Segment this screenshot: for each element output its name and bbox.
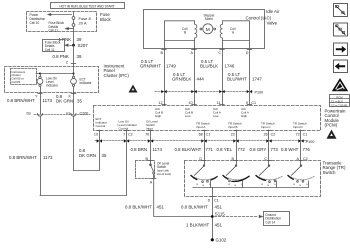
ESD warning triangle under PCM label (327, 130, 337, 139)
pin 70 of PCM (145, 131, 153, 137)
wire label 0.5 LT GRN/WHT 1749 (140, 59, 176, 69)
svg-text:GRN/WHT: GRN/WHT (140, 64, 161, 69)
svg-text:0.8 BLK/WHT: 0.8 BLK/WHT (181, 204, 208, 209)
svg-text:773: 773 (271, 147, 279, 152)
label Fuse 8 20 A (79, 16, 92, 26)
label Fuse Block (100, 12, 112, 22)
svg-text:20 A: 20 A (79, 20, 87, 25)
svg-text:Valve: Valve (267, 20, 278, 25)
terminal C of TR switch (264, 157, 271, 161)
wire label 1 PNK 39 (59, 37, 82, 42)
svg-text:23: 23 (231, 132, 235, 136)
wire S207 to IPC terminal Z (73, 45, 75, 66)
svg-text:C2: C2 (271, 132, 276, 136)
svg-text:D: D (246, 51, 249, 55)
svg-text:Input A: Input A (196, 125, 205, 129)
transaxle range TR switch dashed box (185, 161, 321, 197)
label Low Oil Level Indicator Control (118, 119, 138, 130)
wire K to C200 (73, 93, 75, 115)
pin 7 C2 of PCM (123, 131, 133, 137)
label TR Switch Input C (261, 122, 275, 130)
coil B winding (165, 21, 197, 49)
wire label 0.8 BLK/WHT 451 (switch side) (125, 204, 164, 209)
wire oil level switch A to S115 (154, 179, 211, 217)
stepper motor symbol U1 (200, 24, 216, 34)
wire TR common to box edge (212, 188, 214, 197)
splice S207 (72, 43, 88, 48)
wire label 0.5 LT BLU/BLK 1746 (200, 59, 235, 69)
icon box arrow forward (334, 43, 348, 56)
cell reference Power Distribution Cell 10 (30, 13, 46, 25)
pin 12 of PCM (158, 101, 166, 105)
svg-text:Low: Low (185, 114, 191, 118)
terminal B of oil level switch (146, 157, 153, 161)
svg-text:C: C (218, 51, 221, 55)
wire PCM pin 26 to TR switch C (268, 130, 270, 161)
svg-text:39: 39 (77, 54, 82, 59)
wire 1173 below C200 (40, 116, 42, 195)
svg-text:P100: P100 (306, 140, 315, 144)
svg-text:1746: 1746 (225, 64, 235, 69)
svg-text:0.8 BRN/WHT: 0.8 BRN/WHT (7, 98, 35, 103)
ECT indicator lamp (71, 74, 77, 93)
fuse F8 (72, 12, 75, 32)
svg-text:1749: 1749 (166, 64, 176, 69)
svg-text:39: 39 (77, 37, 82, 42)
cell reference Fuse Block Details Cell 11 (inside fuse block box) (49, 21, 65, 32)
svg-text:0.8 YEL: 0.8 YEL (217, 147, 233, 152)
svg-text:Cell 11: Cell 11 (49, 29, 59, 33)
wire fuse to S207 (73, 32, 75, 46)
wire label 0.8 BRN 1174 (131, 147, 163, 152)
svg-text:0.8 BRN: 0.8 BRN (131, 147, 148, 152)
svg-text:Block: Block (100, 17, 112, 22)
wire 35 up to PCM pin 10 (99, 130, 101, 170)
terminal A of IAC (191, 50, 197, 55)
svg-text:S115: S115 (215, 212, 225, 217)
wire bus inside IPC (36, 73, 74, 75)
terminal K of IPC (69, 94, 76, 99)
svg-text:451: 451 (215, 204, 223, 209)
wire IAC A to PCM pin 10 (194, 48, 196, 105)
svg-text:High: High (241, 114, 248, 118)
pin 10 of PCM top (188, 101, 196, 105)
svg-text:Input: Input (146, 127, 153, 131)
wire 35 below C200 (73, 116, 75, 170)
svg-text:Cell 81: Cell 81 (12, 80, 21, 84)
svg-text:C2: C2 (128, 132, 133, 136)
terminal D of IAC (246, 50, 252, 55)
svg-text:C200: C200 (80, 111, 89, 115)
stepper motor M label (204, 13, 215, 21)
wire label 0.8 BRN/WHT 1173 (lower) (9, 155, 53, 160)
oil level switch dashed box (136, 161, 155, 179)
svg-text:72: 72 (296, 132, 300, 136)
svg-text:0.8 GRY: 0.8 GRY (250, 147, 267, 152)
svg-text:C1: C1 (206, 132, 211, 136)
ESD warning triangle icon (332, 78, 348, 91)
label Transaxle Range (TR) Switch (323, 161, 346, 175)
wire IAC C to PCM pin 11 (222, 48, 224, 105)
wire label 0.8 WHT 776 (281, 147, 310, 152)
label Instrument Panel Cluster (IPC) (104, 64, 130, 78)
label IAC Coil B High (155, 107, 163, 118)
arrow from Power Distribution reference to fuse wire (48, 13, 72, 15)
svg-text:Ds: Ds (26, 111, 31, 115)
svg-text:C1: C1 (214, 199, 219, 203)
label Coil A (230, 27, 236, 35)
coil A winding (220, 21, 249, 49)
svg-text:1 BLK/WHT: 1 BLK/WHT (186, 223, 209, 228)
terminal B of TR switch (232, 157, 239, 161)
wire Y to C200 (40, 93, 42, 115)
wire label 0.8 DK GRN 35 (upper) (56, 94, 82, 104)
wire PCM pin 23 to TR switch B (236, 130, 238, 161)
terminal A C2 of TR switch (297, 157, 308, 161)
svg-text:Motor: Motor (205, 17, 213, 21)
TR switch contact set A (288, 161, 314, 188)
TR switch position letters (197, 184, 309, 187)
icon box arrow back (334, 60, 348, 73)
svg-text:Cell 14: Cell 14 (265, 220, 275, 224)
svg-text:Switch: Switch (157, 165, 167, 169)
svg-text:HOT IN RUN, BULB TEST AND STAR: HOT IN RUN, BULB TEST AND START (59, 4, 114, 8)
svg-text:DK GRN: DK GRN (79, 153, 96, 158)
header label HOT IN RUN BULB TEST AND START (51, 3, 125, 9)
svg-text:Control: Control (119, 127, 129, 131)
svg-text:BLU/BLK: BLU/BLK (200, 64, 218, 69)
wire IAC B to PCM pin 12 (164, 48, 166, 105)
wire label 0.8 BRN/WHT 1173 (upper) (7, 98, 52, 103)
svg-text:High: High (155, 114, 162, 118)
svg-text:low oil level): low oil level) (157, 172, 171, 176)
svg-text:C2 = CLEAR: C2 = CLEAR (331, 103, 347, 107)
svg-text:B: B (184, 31, 186, 35)
label Powertrain Control Module (PCM) (325, 109, 347, 128)
wire PCM pin 70 to oil level switch B (150, 130, 152, 161)
svg-text:C1: C1 (251, 101, 256, 105)
label Idle Air Control (IAC) Valve (246, 9, 280, 26)
wire label 0.5 LT BLU/WHT 1747 (227, 72, 262, 82)
svg-text:68: 68 (199, 132, 203, 136)
svg-text:M: M (206, 27, 210, 33)
svg-text:35: 35 (77, 98, 82, 103)
idle air control IAC valve box (144, 10, 265, 49)
wire PCM pin 68 to TR switch D (204, 130, 206, 161)
svg-text:26: 26 (264, 132, 268, 136)
svg-text:D: D (208, 199, 211, 203)
label TR Switch Input A (196, 122, 210, 130)
svg-text:Input C: Input C (261, 125, 272, 129)
terminal D of TR switch (199, 157, 206, 161)
svg-text:772: 772 (238, 147, 246, 152)
ESD warning triangle under IPC label (129, 85, 138, 93)
oil level switch S1 (150, 161, 155, 179)
label ECT Indicator Control (96, 117, 108, 128)
wire label 0.8 BLK/WHT 771 (175, 147, 214, 152)
svg-text:0.8 BRN/WHT: 0.8 BRN/WHT (9, 155, 37, 160)
svg-text:Cluster (IPC): Cluster (IPC) (104, 73, 130, 78)
svg-text:0.8 WHT: 0.8 WHT (281, 147, 299, 152)
pin 26 C2 of PCM (264, 131, 276, 137)
svg-text:DK GRN: DK GRN (56, 98, 73, 103)
svg-text:BLU/WHT: BLU/WHT (227, 77, 247, 82)
svg-text:1174: 1174 (153, 147, 163, 152)
junction node at ECT lamp (72, 72, 74, 74)
svg-text:Indicator: Indicator (80, 81, 92, 85)
icon box connector details (334, 23, 348, 36)
svg-text:G102: G102 (216, 238, 227, 243)
svg-text:0.8 PNK: 0.8 PNK (53, 54, 69, 59)
label Oil Level Switch Input (146, 119, 158, 130)
wire 1173 up to PCM pin 7 (126, 130, 128, 195)
connector P100 lower pass-through (95, 139, 314, 144)
label ECT Indicator (80, 77, 92, 85)
connector P100 upper pass-through (155, 90, 263, 95)
svg-text:1747: 1747 (252, 77, 262, 82)
wire label 0.5 LT GRN/BLK 444 (172, 72, 204, 82)
cell reference box Ground Distribution Cell 14 (264, 212, 290, 226)
pin 23 of PCM (231, 131, 239, 137)
svg-text:S207: S207 (78, 43, 89, 48)
wire label 0.8 GRY 773 (250, 147, 279, 152)
pin 68 C1 of PCM (199, 131, 211, 137)
svg-text:Input D: Input D (293, 125, 304, 129)
svg-text:7: 7 (123, 132, 125, 136)
wire PCM pin 72 to TR switch A (300, 130, 302, 161)
wire label 1 BLK/WHT 451 (186, 223, 222, 228)
svg-text:0.8 BLK/WHT: 0.8 BLK/WHT (175, 147, 202, 152)
svg-text:0.8 BLK/WHT: 0.8 BLK/WHT (125, 204, 152, 209)
connector C200 (26, 111, 90, 116)
pin 11 of PCM (217, 101, 225, 105)
powertrain control module PCM dashed box (94, 106, 321, 131)
wire label 0.8 BLK/WHT 451 (ground side) (181, 204, 222, 209)
svg-text:451: 451 (215, 223, 223, 228)
label IAC Coil A Low (213, 107, 221, 118)
svg-text:35: 35 (102, 153, 107, 158)
label Coil B (182, 27, 188, 35)
svg-text:Indicator: Indicator (46, 83, 58, 87)
label TR Switch Input D (293, 122, 307, 130)
terminal B of IAC (161, 50, 167, 55)
icon box fuse details (334, 4, 348, 17)
wire IAC D to PCM pin 9 (249, 48, 251, 105)
svg-text:Cell 10: Cell 10 (30, 21, 40, 25)
label IAC Coil B Low (185, 107, 193, 118)
svg-text:10: 10 (94, 132, 98, 136)
svg-text:776: 776 (303, 147, 311, 152)
splice S115 (211, 212, 225, 218)
wire 35 horizontal jog (74, 170, 100, 172)
PCM connector color legend table (330, 95, 350, 108)
TR switch common bus wire (193, 187, 308, 189)
junction node at low oil lamp (39, 72, 41, 74)
svg-text:Control: Control (96, 124, 106, 128)
svg-text:Cell 11: Cell 11 (45, 48, 55, 52)
pin 72 C1 of PCM (296, 131, 308, 137)
svg-text:1173: 1173 (43, 98, 53, 103)
TR switch contact set D (191, 161, 217, 188)
arrow from Fuse Block Details reference to fuse wire (66, 28, 74, 30)
wire 1173 horizontal run to PCM pin 7 column (40, 195, 127, 197)
svg-text:451: 451 (157, 204, 165, 209)
label IAC Coil A High (241, 107, 249, 118)
svg-text:P100: P100 (255, 90, 264, 94)
terminal C of IAC (218, 50, 224, 55)
wire Z down to bus (73, 66, 75, 75)
solid box Fuse Block Details Cell 11 (43, 40, 65, 53)
dashed reference wire from S115 to ground distribution (215, 215, 263, 217)
ground G102 (211, 238, 227, 243)
svg-text:771: 771 (206, 147, 214, 152)
TR switch contact set C (256, 161, 282, 188)
svg-text:444: 444 (197, 77, 205, 82)
svg-text:Switch: Switch (323, 170, 336, 175)
terminal Y of IPC (35, 94, 42, 99)
TR switch contact set B (223, 161, 249, 188)
svg-text:70: 70 (145, 132, 149, 136)
low oil level indicator lamp (37, 74, 43, 93)
svg-text:Idle Air: Idle Air (266, 9, 280, 14)
svg-text:1173: 1173 (43, 155, 53, 160)
cell reference box Instrument Cluster Cell 60 or Cell 81 (11, 69, 37, 85)
terminal D C1 of TR switch bottom (208, 197, 219, 203)
pin 10 of PCM bottom (94, 131, 102, 137)
label Oil Level Switch (open with low oil level) (157, 161, 171, 175)
pin 9 C1 of PCM (246, 101, 256, 105)
svg-text:Low: Low (213, 114, 219, 118)
svg-text:Fs: Fs (66, 111, 70, 115)
svg-text:C1: C1 (303, 132, 308, 136)
wire label 0.8 YEL 772 (217, 147, 246, 152)
terminal A of oil level switch (150, 179, 156, 185)
svg-text:Input B: Input B (228, 125, 238, 129)
wire TR switch D to G102 (212, 197, 214, 240)
svg-text:(PCM): (PCM) (325, 122, 338, 127)
dashed arrow from S207 to Fuse Block Details box (65, 44, 72, 46)
label TR Switch Input B (228, 122, 242, 130)
wire label 0.8 DK GRN 35 (lower) (79, 148, 107, 158)
svg-text:GRN/BLK: GRN/BLK (172, 77, 191, 82)
terminal Z of IPC (66, 60, 76, 64)
wire label 0.8 PNK 39 (53, 54, 82, 59)
instrument panel cluster IPC dashed box (5, 67, 99, 93)
fuse block dashed box (27, 12, 97, 32)
label Low Oil Level Indicator (46, 76, 58, 87)
